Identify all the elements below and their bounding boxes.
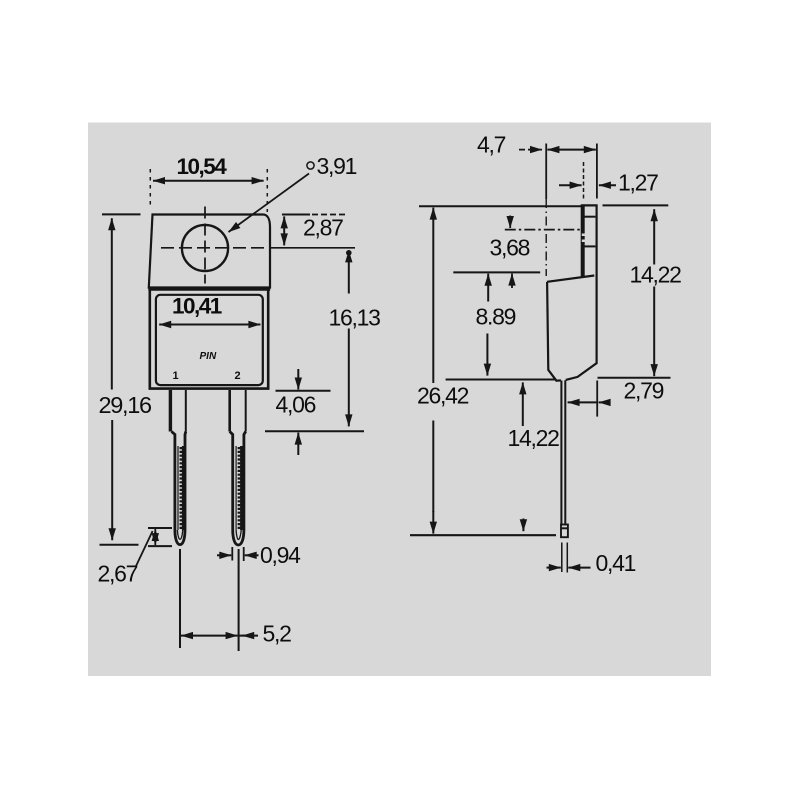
svg-text:4,06: 4,06 (276, 392, 316, 418)
svg-text:0,41: 0,41 (596, 550, 636, 576)
svg-text:3,91: 3,91 (317, 153, 357, 179)
svg-text:5,2: 5,2 (263, 621, 292, 647)
svg-text:2,67: 2,67 (98, 561, 138, 587)
svg-text:14,22: 14,22 (508, 425, 560, 451)
svg-text:0,94: 0,94 (260, 542, 301, 568)
svg-text:29,16: 29,16 (99, 392, 153, 418)
svg-text:26,42: 26,42 (417, 383, 469, 409)
svg-text:1: 1 (173, 370, 179, 382)
svg-text:16,13: 16,13 (329, 305, 381, 331)
svg-text:14,22: 14,22 (630, 262, 682, 288)
svg-text:4,7: 4,7 (477, 132, 506, 158)
svg-text:3,68: 3,68 (490, 235, 530, 261)
svg-text:8.89: 8.89 (476, 304, 516, 330)
svg-text:10,41: 10,41 (172, 294, 222, 319)
svg-text:2,87: 2,87 (303, 215, 343, 241)
svg-text:2: 2 (235, 370, 241, 382)
svg-text:PIN: PIN (200, 351, 217, 362)
svg-text:10,54: 10,54 (177, 154, 228, 179)
svg-text:1,27: 1,27 (618, 170, 658, 196)
svg-text:2,79: 2,79 (624, 378, 664, 404)
